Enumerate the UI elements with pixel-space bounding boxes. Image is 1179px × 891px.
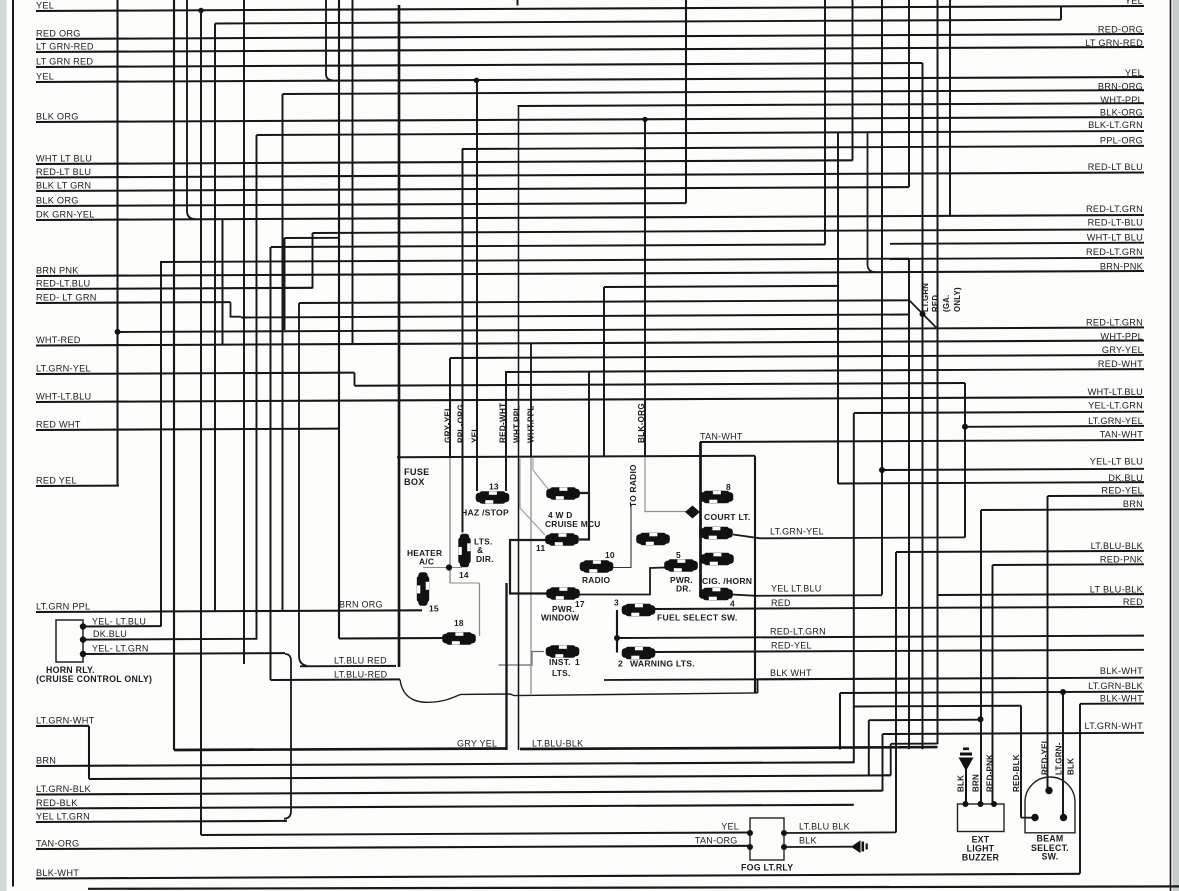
wire v 909 upper — [908, 0, 910, 187]
svg-text:BLK WHT: BLK WHT — [770, 668, 812, 678]
svg-text:RED-LT-BLU: RED-LT-BLU — [1088, 217, 1143, 227]
wire v299 — [299, 303, 307, 666]
node buzzer pin 1 — [963, 801, 969, 807]
wire WHT-RED tap / RED-LT.GRN right — [118, 327, 1145, 332]
svg-text:LT GRN-RED: LT GRN-RED — [36, 41, 94, 51]
wire fog out LT.BLU BLK — [784, 831, 896, 834]
svg-text:DK.BLU: DK.BLU — [93, 629, 127, 639]
wire v 479 gray — [479, 583, 481, 636]
wire v 840 — [839, 693, 841, 750]
svg-text:BLK: BLK — [1067, 758, 1076, 775]
svg-text:LT.GRN-YEL: LT.GRN-YEL — [1088, 416, 1143, 426]
svg-text:FUSE: FUSE — [404, 467, 430, 477]
wire LT.BLU RED into inst — [499, 652, 545, 666]
connector fuse 1 INST LTS — [546, 645, 580, 657]
wire BLK-LT.GRN right / DK BLU top — [257, 131, 1145, 135]
svg-text:YEL: YEL — [36, 71, 54, 81]
relay FOG LT RLY box — [750, 818, 784, 860]
svg-text:BLK LT GRN: BLK LT GRN — [36, 180, 91, 190]
svg-text:A/C: A/C — [419, 557, 434, 567]
node fog pin 4 — [781, 844, 787, 850]
svg-text:LT.BLU BLK: LT.BLU BLK — [799, 822, 850, 832]
buzzer BLK terminal symbol — [959, 748, 974, 805]
wire LT.BLU-RED dip — [400, 680, 758, 703]
wire v 686 — [685, 0, 687, 203]
wire YEL-LT.GRN right — [854, 412, 1144, 413]
wire v 589 mcu feed — [588, 372, 590, 493]
svg-text:2: 2 — [618, 658, 623, 668]
svg-text:BLK-ORG: BLK-ORG — [637, 403, 646, 443]
wire horn YEL-LT.GRN — [83, 652, 285, 655]
svg-text:DIR.: DIR. — [476, 554, 494, 564]
wire RED YEL left — [36, 485, 119, 487]
wire RED-LT.BLU 2a — [36, 288, 313, 289]
connector fuse 3 FUEL SELECT — [622, 604, 656, 616]
wire v 645 blk-org — [644, 119, 646, 456]
left border — [12, 0, 14, 887]
wire heater gray h — [423, 567, 462, 569]
svg-text:BRN: BRN — [1123, 499, 1143, 509]
wire red-blk pin stub — [1021, 817, 1032, 819]
svg-text:BRN: BRN — [972, 774, 981, 792]
connector fuse 4WD CRUISE MCU — [546, 487, 580, 499]
wire LT.BLU-BLK right — [896, 551, 1144, 552]
svg-text:BRN: BRN — [36, 755, 56, 765]
wire BRN left — [36, 762, 854, 766]
svg-text:YEL LT.BLU: YEL LT.BLU — [771, 583, 822, 593]
svg-text:BLK ORG: BLK ORG — [36, 195, 79, 205]
wire row 238 — [285, 237, 341, 239]
wire BLK ORG — [36, 117, 1144, 122]
wire v 531 wht-ppl2 — [530, 344, 532, 458]
wire v 1063 blk — [1062, 692, 1064, 818]
svg-text:BLK: BLK — [957, 775, 966, 792]
wire LT.GRN-BLK right — [840, 692, 1144, 693]
node lt.grn-blk tap — [1060, 689, 1066, 695]
wire v 244 — [243, 0, 245, 664]
node ga only — [920, 311, 926, 317]
svg-text:BLK-WHT: BLK-WHT — [36, 868, 79, 878]
svg-text:RED-YEL: RED-YEL — [1041, 738, 1050, 775]
wire stub 775 — [883, 774, 891, 776]
svg-text:LT.GRN-BLK: LT.GRN-BLK — [36, 784, 92, 794]
wire v 117 — [116, 0, 118, 486]
connector fuse 15 HEATER A/C — [417, 572, 429, 606]
wire BLK LT GRN left — [36, 187, 909, 191]
connector fuse 17 PWR WINDOW — [546, 587, 580, 599]
node buzzer pin 3 — [991, 801, 997, 807]
wire LT.GRN-BLK left — [36, 791, 883, 795]
connector fuse 8 — [700, 491, 734, 503]
svg-text:GRY-YEL: GRY-YEL — [1102, 345, 1143, 355]
connector fuse 14 LTS & DIR — [458, 534, 470, 568]
svg-text:BLK: BLK — [799, 836, 817, 846]
connector fuse 11 — [545, 533, 579, 545]
wire court rail — [699, 442, 702, 597]
wire row 262 — [160, 259, 909, 262]
wire LT.BLU-RED 2 — [271, 678, 401, 681]
svg-text:BLK-WHT: BLK-WHT — [1100, 693, 1143, 703]
wire YEL LT.GRN left — [36, 821, 287, 822]
svg-text:RED-LT BLU: RED-LT BLU — [36, 167, 91, 177]
node horn pin 3 — [80, 651, 86, 657]
svg-text:RED-ORG: RED-ORG — [1098, 24, 1143, 34]
wire DK.BLU right — [838, 482, 1144, 483]
node beam pin blk — [1060, 814, 1067, 821]
svg-text:14: 14 — [459, 570, 469, 580]
node arrow — [685, 506, 700, 519]
svg-text:LT BLU-BLK: LT BLU-BLK — [1090, 584, 1144, 594]
connector fuse 2 WARNING LTS — [622, 647, 656, 659]
wire v 1021 red-blk — [1020, 706, 1022, 818]
wire v 1061 — [1060, 6, 1062, 19]
svg-text:ONLY): ONLY) — [953, 287, 962, 312]
fuse box outline top — [397, 456, 755, 458]
right border — [1170, 0, 1172, 891]
wire gray internal 2 — [533, 457, 548, 489]
wire v 922 — [922, 63, 924, 749]
svg-text:LT.BLU-RED: LT.BLU-RED — [334, 670, 388, 680]
wire v 882 yel-lt blu — [881, 0, 883, 595]
wire radio link — [613, 504, 631, 568]
bottom border — [88, 886, 1179, 888]
svg-text:DR.: DR. — [676, 584, 691, 594]
wire row2 — [215, 20, 1061, 24]
switch BEAM SELECT SW dome — [1025, 777, 1075, 833]
wire v 882 stair — [882, 734, 884, 791]
svg-text:RED YEL: RED YEL — [36, 475, 77, 485]
node buzzer pin 2 — [978, 801, 984, 807]
wire v 531 gray — [530, 458, 532, 695]
wire v 462 ppl-org — [462, 149, 464, 533]
svg-text:RED-PNK: RED-PNK — [1100, 554, 1144, 564]
wire RED-YEL right — [1048, 495, 1145, 497]
svg-text:RED-LT.GRN: RED-LT.GRN — [770, 626, 826, 636]
wire v 506 lower — [505, 583, 507, 750]
svg-text:LT.GRN-WHT: LT.GRN-WHT — [36, 715, 95, 725]
svg-text:TAN-WHT: TAN-WHT — [700, 432, 743, 442]
wire LT.BLU RED 1 — [300, 665, 396, 667]
node on BLK ORG — [642, 117, 647, 122]
wire LT GRN-RED — [36, 47, 1144, 52]
node beam pin red-blk — [1031, 814, 1038, 821]
svg-text:LT GRN-RED: LT GRN-RED — [1085, 38, 1143, 48]
svg-text:COURT LT.: COURT LT. — [704, 512, 751, 522]
wire RED ORG — [36, 34, 1144, 39]
wire v 174 — [173, 0, 175, 750]
wire diagonal ga only — [909, 300, 937, 328]
wire v 518 wht-ppl — [518, 106, 520, 750]
svg-text:YEL-LT BLU: YEL-LT BLU — [1090, 456, 1143, 466]
wire BLK ORG 2 — [36, 203, 686, 206]
svg-text:WARNING LTS.: WARNING LTS. — [630, 659, 695, 669]
svg-text:BRN ORG: BRN ORG — [339, 599, 383, 609]
wire v 161 — [160, 262, 162, 627]
svg-text:CIG. /HORN: CIG. /HORN — [702, 576, 752, 586]
wire v 604 — [603, 287, 605, 456]
wire v 284 — [284, 238, 286, 330]
svg-text:BUZZER: BUZZER — [962, 852, 1000, 862]
wire v 852 — [852, 0, 854, 161]
svg-text:DK GRN-YEL: DK GRN-YEL — [36, 209, 95, 219]
svg-text:WHT-PPL: WHT-PPL — [1100, 95, 1143, 105]
wire YEL LT.BLU from pill 4 — [732, 595, 882, 596]
wire v 757 jog — [757, 680, 759, 694]
wire LT.GRN-YEL right — [965, 425, 1144, 428]
svg-text:BOX: BOX — [404, 477, 425, 487]
wire v 1080 — [1079, 704, 1081, 874]
svg-text:WHT.PPL: WHT.PPL — [513, 405, 522, 443]
wire RED-WHT right — [505, 369, 1144, 372]
node lt.grn-yel tap — [962, 424, 968, 430]
svg-text:HAZ /STOP: HAZ /STOP — [461, 508, 509, 518]
svg-text:BRN PNK: BRN PNK — [36, 265, 79, 275]
svg-text:YEL- LT.GRN: YEL- LT.GRN — [92, 643, 149, 653]
wire LT.GRN-YEL jog — [354, 373, 356, 386]
wire v 282 BRN ORG — [282, 94, 284, 611]
svg-text:LT.BLU RED: LT.BLU RED — [334, 656, 387, 666]
wire LT.GRN PPL / BRN ORG — [36, 610, 422, 612]
svg-text:RED: RED — [771, 598, 791, 608]
wire v 399 fuse box left — [398, 5, 401, 667]
svg-text:LT.GRN-YEL: LT.GRN-YEL — [770, 526, 824, 536]
svg-text:TAN-ORG: TAN-ORG — [695, 836, 738, 846]
svg-text:RED-WHT: RED-WHT — [1098, 359, 1143, 369]
svg-text:1: 1 — [575, 657, 580, 667]
node beam pin red-yel — [1045, 787, 1052, 794]
svg-text:BRN-ORG: BRN-ORG — [1098, 81, 1143, 91]
wire RED-LT.GRN right 2 — [910, 258, 1144, 259]
wire LT.GRN-WHT run — [89, 775, 891, 779]
wire GRY-YEL right — [450, 355, 1144, 358]
svg-text:PPL-ORG: PPL-ORG — [457, 404, 466, 443]
svg-text:RED-LT.GRN: RED-LT.GRN — [1086, 247, 1143, 257]
svg-text:YEL: YEL — [721, 822, 739, 832]
svg-text:LTS.: LTS. — [552, 668, 571, 678]
svg-text:RED-LT.GRN: RED-LT.GRN — [1086, 317, 1143, 327]
svg-text:WINDOW: WINDOW — [541, 612, 579, 622]
connector fuse 13 HAZ/STOP — [476, 491, 510, 503]
svg-text:18: 18 — [454, 618, 464, 628]
svg-text:GRY-YEL: GRY-YEL — [444, 406, 453, 443]
wire row 247 — [271, 245, 825, 248]
wire WHT-LT BLU right — [890, 243, 1144, 244]
svg-text:WHT-RED: WHT-RED — [36, 335, 81, 345]
svg-text:YEL: YEL — [1125, 0, 1143, 6]
wire fuse box right — [754, 456, 756, 694]
wire TAN-ORG left — [36, 846, 750, 849]
svg-text:FOG LT.RLY: FOG LT.RLY — [741, 862, 793, 872]
wire v 517 top stub — [517, 0, 519, 6]
wire v 965 — [964, 383, 966, 538]
wire RED-LT.BLU 2b — [313, 229, 1145, 233]
node horn pin 1 — [80, 623, 86, 629]
wire RED-LT GRN jog — [231, 302, 242, 317]
node yel-lt blu — [879, 467, 885, 473]
speaker symbol — [851, 840, 868, 853]
svg-text:LT.GRN-YEL: LT.GRN-YEL — [36, 363, 91, 373]
svg-text:5: 5 — [676, 550, 681, 560]
wire DK GRN-YEL / RED-LT.GRN right — [36, 215, 1144, 220]
svg-text:8: 8 — [726, 482, 731, 492]
left page-edge shading — [0, 0, 7, 891]
svg-text:LT.GRN-WHT: LT.GRN-WHT — [1085, 721, 1144, 731]
svg-text:RED: RED — [1123, 597, 1143, 607]
wire WHT-LT.BLU — [36, 397, 1144, 402]
svg-text:4: 4 — [730, 598, 735, 608]
svg-text:INST.: INST. — [549, 657, 571, 667]
svg-text:RADIO: RADIO — [582, 575, 610, 585]
svg-text:3: 3 — [614, 597, 619, 607]
svg-text:BLK-ORG: BLK-ORG — [1100, 107, 1143, 117]
wire BRN right — [981, 508, 1144, 511]
wire court feed gray — [645, 457, 688, 512]
wire v 950 — [949, 0, 951, 216]
wire BRN-ORG right — [283, 90, 1145, 94]
wire BLK-WHT bottom — [36, 874, 1080, 879]
svg-text:CRUISE MCU: CRUISE MCU — [545, 519, 601, 529]
wire BLK-WHT right 2 — [1080, 703, 1144, 705]
wire pill18 feed — [339, 637, 446, 640]
svg-text:RED: RED — [931, 295, 940, 312]
svg-text:BLK ORG: BLK ORG — [36, 111, 79, 121]
svg-text:YEL LT.GRN: YEL LT.GRN — [36, 811, 90, 821]
svg-text:YEL-LT.GRN: YEL-LT.GRN — [1088, 400, 1143, 410]
wire v 896 — [895, 552, 897, 833]
svg-text:RED ORG: RED ORG — [36, 28, 81, 38]
wire LT.GRN-WHT left — [36, 725, 89, 727]
svg-text:SW.: SW. — [1042, 852, 1059, 862]
wire gray internal 1 — [520, 457, 545, 535]
svg-text:GRY YEL: GRY YEL — [457, 738, 497, 748]
wire v 825 — [824, 0, 826, 245]
wire YEL-LT BLU right — [882, 469, 1144, 470]
svg-text:LT.BLU-BLK: LT.BLU-BLK — [1091, 541, 1144, 551]
wire LT.GRN-YEL left — [36, 373, 355, 374]
wire v 477 yel leg — [476, 81, 478, 492]
wire v 270 — [270, 247, 272, 680]
wire YEL top — [36, 6, 1144, 11]
svg-text:LT.GRN: LT.GRN — [921, 283, 930, 312]
svg-text:TAN-ORG: TAN-ORG — [36, 838, 79, 848]
svg-text:BLK-WHT: BLK-WHT — [1100, 666, 1143, 676]
wire gray h2 — [450, 582, 480, 584]
connector fuse 10 RADIO — [580, 560, 614, 572]
wire row 303 — [299, 300, 909, 303]
buzzer EXT LIGHT BUZZER box — [958, 804, 1005, 832]
wire BRN PNK — [36, 271, 1144, 276]
wire LT.BLU-BLK thick — [520, 747, 938, 749]
wire v 450 gry-yel — [449, 358, 451, 458]
wire v 256 DK BLU — [256, 135, 258, 640]
svg-text:RED-WHT: RED-WHT — [499, 403, 508, 443]
svg-text:LT.GRN-BLK: LT.GRN-BLK — [1088, 681, 1144, 691]
wire v 450 gray inside — [449, 458, 451, 584]
node fog pin 2 — [747, 844, 753, 850]
wire RED-LT BLU — [36, 173, 1144, 178]
wire RED-LT GRN 2a — [36, 301, 231, 304]
node on YEL top — [198, 8, 203, 13]
wire v 506 red-wht leg — [505, 372, 507, 491]
wire RED-BLK left — [36, 805, 854, 809]
connector fuse 4 — [699, 588, 733, 600]
connector fuse 5 PWR DR — [664, 559, 698, 571]
wire PPL-ORG right — [462, 146, 1144, 149]
svg-text:LT.GRN PPL: LT.GRN PPL — [36, 601, 90, 611]
wire v187 elbow — [187, 0, 196, 219]
svg-text:(GA.: (GA. — [942, 295, 951, 312]
wire LT GRN RED — [36, 63, 923, 67]
wire v 215 — [214, 24, 216, 612]
wire RED-PNK right — [993, 563, 1145, 566]
wire v 992 red-pnk — [992, 565, 994, 804]
svg-text:10: 10 — [605, 550, 615, 560]
svg-text:LT.BLU-BLK: LT.BLU-BLK — [532, 738, 583, 748]
wire bracket left 11-17 — [510, 540, 547, 594]
svg-text:BRN-PNK: BRN-PNK — [1100, 261, 1144, 271]
wire LT.GRN-WHT right — [883, 733, 1145, 734]
wire v 868 stair — [868, 720, 870, 776]
connector fuse COURT LT — [699, 527, 733, 539]
node heater tap — [446, 564, 452, 570]
wire row 720 — [869, 719, 981, 722]
svg-text:YEL: YEL — [1125, 68, 1143, 78]
node on YEL 2 — [474, 78, 479, 83]
svg-text:RED WHT: RED WHT — [36, 419, 81, 429]
wire v 853 stair — [853, 413, 855, 763]
wire v867 elbow — [868, 132, 877, 272]
connector fuse 18 — [442, 632, 476, 644]
wire v 352 — [352, 0, 354, 344]
wire LT.GRN-YEL from court lt — [733, 535, 965, 539]
svg-text:DK.BLU: DK.BLU — [1108, 473, 1143, 483]
wire v 937 — [937, 0, 939, 744]
connector fuse mid — [636, 533, 670, 545]
svg-text:17: 17 — [575, 599, 585, 609]
svg-text:15: 15 — [429, 603, 439, 613]
wire fog YEL feed — [201, 833, 750, 836]
wire horn YEL-LT.BLU — [83, 625, 161, 627]
wire pwr window to pwr dr — [578, 568, 665, 595]
wire RED-LT.GRN right 3 — [617, 636, 1144, 638]
wire WHT LT BLU left — [36, 160, 853, 164]
wire GRY YEL thick — [174, 749, 508, 751]
wire v291 yel-lt.grn drop — [284, 654, 291, 819]
node wht-red tap — [115, 329, 121, 335]
svg-text:YEL- LT.BLU: YEL- LT.BLU — [92, 616, 146, 626]
svg-text:RED-BLK: RED-BLK — [36, 798, 78, 808]
wire v 222 — [222, 220, 224, 346]
wire v 312 jog — [312, 233, 314, 289]
wire row 384 cont — [355, 383, 966, 386]
svg-text:WHT LT BLU: WHT LT BLU — [36, 153, 92, 163]
wire row 706 — [854, 705, 1021, 708]
wire row 744 — [891, 743, 938, 745]
svg-text:RED- LT GRN: RED- LT GRN — [36, 292, 97, 302]
svg-text:LT GRN RED: LT GRN RED — [36, 56, 93, 66]
node brn buzzer tap — [978, 716, 984, 722]
node fuel-warning tap — [614, 635, 620, 641]
svg-text:RED-LT BLU: RED-LT BLU — [1088, 162, 1143, 172]
svg-text:11: 11 — [536, 543, 545, 553]
wire fog out BLK — [784, 846, 852, 848]
wire v326 elbow — [326, 0, 334, 80]
wire TAN-WHT — [700, 440, 1144, 442]
wire RED-YEL right — [655, 650, 1144, 652]
wire v 981 buzzer brn — [980, 510, 982, 804]
svg-text:(CRUISE CONTROL ONLY): (CRUISE CONTROL ONLY) — [36, 674, 152, 684]
right page-edge shading — [1173, 0, 1179, 891]
